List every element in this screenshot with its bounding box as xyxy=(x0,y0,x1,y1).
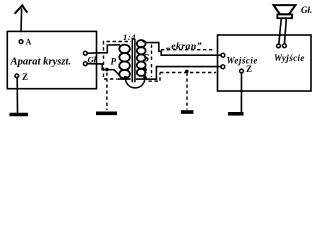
svg-text:Gł: Gł xyxy=(88,55,97,65)
svg-text:Gł.: Gł. xyxy=(301,5,312,15)
svg-text:Z: Z xyxy=(246,64,252,74)
svg-text:„ekran”: „ekran” xyxy=(166,41,202,52)
svg-text:S: S xyxy=(143,51,150,65)
svg-text:Aparat kryszt.: Aparat kryszt. xyxy=(10,56,72,67)
svg-text:1:4: 1:4 xyxy=(123,32,136,42)
svg-text:Z: Z xyxy=(22,72,28,82)
svg-text:Wyjście: Wyjście xyxy=(274,53,305,63)
svg-text:P: P xyxy=(111,57,117,67)
svg-text:Wejście: Wejście xyxy=(227,56,258,66)
svg-text:A: A xyxy=(26,37,32,46)
